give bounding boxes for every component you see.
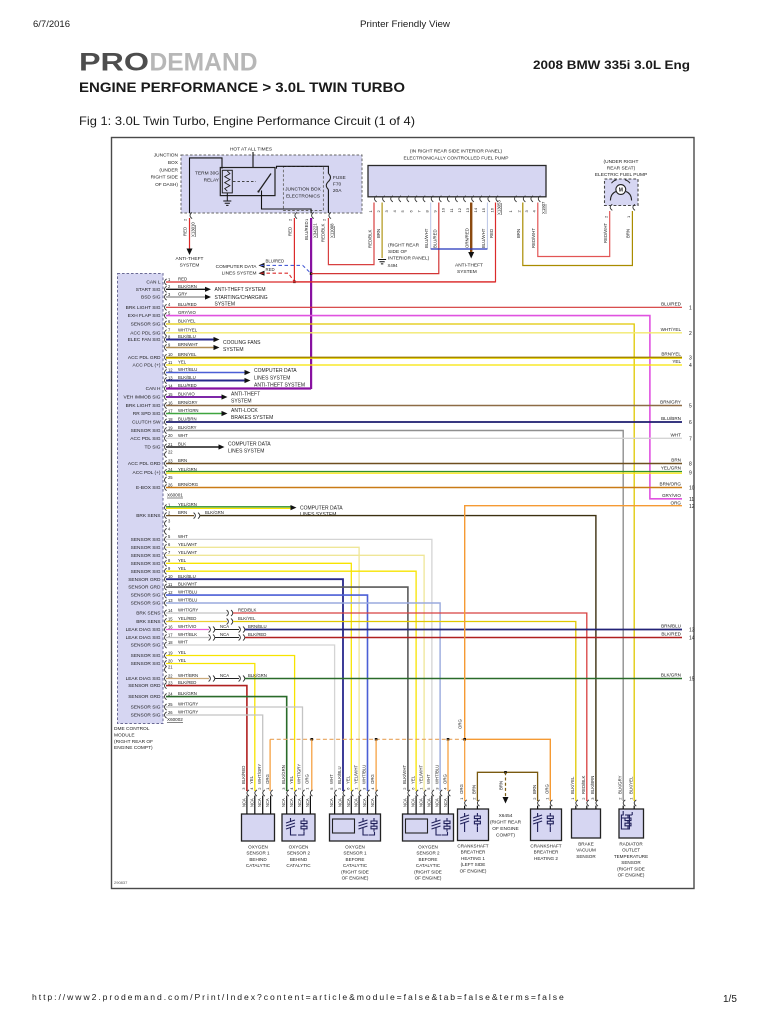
svg-text:BRK LIGHT SIG: BRK LIGHT SIG (126, 305, 161, 311)
svg-text:12: 12 (168, 590, 173, 595)
wire WHT/BLU to oxygen sensor 2 before cat (166, 603, 440, 791)
svg-text:SENSOR: SENSOR (621, 860, 641, 865)
wire BRN module pin2 to ground X494 (381, 203, 383, 259)
edge label BRN 8 (671, 458, 692, 468)
svg-text:SENSOR SIG: SENSOR SIG (131, 553, 161, 559)
oxygen sensor 1 before catalytic box (330, 814, 381, 841)
svg-text:ACC PDL SIG: ACC PDL SIG (130, 330, 160, 336)
svg-text:BLU/RED: BLU/RED (661, 302, 682, 307)
svg-text:ANTI-THEFT: ANTI-THEFT (176, 256, 204, 262)
svg-text:SENSOR 2: SENSOR 2 (416, 851, 440, 856)
electric fuel pump box (605, 179, 639, 206)
wire BLK/GRN to oxygen sensor 2 behind cat (166, 697, 287, 791)
brake vacuum sensor box (572, 809, 601, 838)
svg-text:BRN: BRN (472, 785, 477, 794)
svg-text:ELEC FAN SIG: ELEC FAN SIG (128, 337, 161, 343)
svg-text:3: 3 (689, 355, 692, 361)
X60001 pin 26 BRN/ORG (136, 482, 199, 491)
svg-text:BRN: BRN (671, 458, 681, 463)
wire WHT/GRY to oxygen sensor 1 behind cat (166, 715, 263, 791)
svg-text:ORG: ORG (443, 774, 448, 784)
svg-text:RED: RED (178, 277, 187, 282)
svg-text:CATALYTIC: CATALYTIC (416, 863, 441, 868)
svg-text:X13053: X13053 (497, 200, 502, 215)
svg-text:2: 2 (689, 331, 692, 337)
svg-text:CAN L: CAN L (146, 280, 160, 286)
svg-text:BRN/GRY: BRN/GRY (178, 400, 198, 405)
svg-text:HEATING 2: HEATING 2 (534, 856, 558, 861)
svg-text:BREATHER: BREATHER (534, 850, 559, 855)
svg-text:26: 26 (168, 710, 173, 715)
X60001 pin 3 GRY (141, 292, 187, 301)
svg-text:BLK/GRN: BLK/GRN (205, 510, 224, 515)
svg-text:BRAKES SYSTEM: BRAKES SYSTEM (231, 415, 273, 421)
svg-text:15: 15 (168, 616, 173, 621)
svg-text:NCA: NCA (362, 798, 367, 807)
svg-text:SENSOR GRD: SENSOR GRD (128, 683, 161, 689)
label COMPUTER DATA LINES SYSTEM (top) (216, 264, 258, 277)
svg-text:13: 13 (689, 628, 695, 634)
svg-text:WHT/GRY: WHT/GRY (178, 608, 198, 613)
svg-text:ORN/RED: ORN/RED (465, 228, 470, 248)
wire BLK/YEL to radiator outlet sensor (166, 324, 634, 801)
svg-text:YEL/GRN: YEL/GRN (661, 466, 681, 471)
svg-text:BLU/RED: BLU/RED (266, 259, 285, 264)
svg-text:LINES SYSTEM: LINES SYSTEM (222, 270, 257, 276)
edge label BLK/RED 14 (661, 632, 694, 642)
svg-text:WHT/GRY: WHT/GRY (297, 764, 302, 784)
svg-text:TD SIG: TD SIG (145, 445, 161, 451)
svg-text:BRN/GRY: BRN/GRY (660, 400, 681, 405)
svg-text:17: 17 (168, 632, 173, 637)
svg-text:X60002: X60002 (167, 717, 183, 722)
wire fuse bottom to pin (327, 190, 329, 214)
wire CAN L RED bus (166, 281, 496, 283)
ground X494 (378, 260, 386, 264)
node X6454 label (490, 813, 522, 839)
fuel pump pin 1 (626, 204, 635, 218)
wire YEL to oxygen sensor 1 behind cat (166, 664, 255, 792)
svg-text:SENSOR 1: SENSOR 1 (246, 851, 270, 856)
svg-text:RED/BLK: RED/BLK (368, 229, 373, 248)
svg-text:NCA: NCA (426, 798, 431, 807)
svg-text:BLK/GRN: BLK/GRN (661, 673, 681, 678)
svg-text:NCA: NCA (435, 798, 440, 807)
wire VIO X34221 vertical (310, 218, 312, 389)
label BLU/RED X34221 (304, 221, 318, 240)
svg-text:ORG: ORG (370, 774, 375, 784)
svg-text:BLK/GRN: BLK/GRN (281, 765, 286, 784)
svg-text:GRY/VIO: GRY/VIO (662, 493, 681, 498)
fuel pump control module box (368, 166, 546, 197)
svg-text:X34221: X34221 (313, 223, 318, 238)
wire BLU/BRN to right edge 6 (166, 421, 682, 423)
svg-text:OXYGEN: OXYGEN (289, 845, 309, 850)
svg-text:5: 5 (689, 404, 692, 410)
svg-text:LEAK DIAG SIG: LEAK DIAG SIG (126, 635, 161, 641)
edge label ORG 12 (671, 500, 695, 510)
svg-text:NCA: NCA (220, 673, 229, 678)
crankshaft breather heating 1 heater symbols (460, 813, 480, 832)
svg-text:X13010: X13010 (191, 222, 196, 237)
svg-text:PRO: PRO (79, 49, 149, 77)
edge label WHT/YEL 2 (661, 327, 692, 337)
svg-text:(UNDER: (UNDER (159, 167, 178, 173)
svg-text:24: 24 (168, 691, 173, 696)
svg-text:14: 14 (168, 608, 173, 613)
svg-text:GRY: GRY (178, 292, 187, 297)
svg-text:FUSE: FUSE (333, 175, 346, 181)
X60001 pin 18 BLU/BRN (132, 417, 197, 426)
svg-text:BLK/GRN: BLK/GRN (248, 673, 267, 678)
svg-text:WHT/BLU: WHT/BLU (178, 367, 197, 372)
relay TERM 30G box (220, 168, 275, 196)
svg-text:YEL: YEL (346, 775, 351, 784)
svg-text:SYSTEM: SYSTEM (231, 398, 252, 404)
svg-text:WHT: WHT (178, 534, 188, 539)
svg-text:YEL: YEL (672, 359, 681, 364)
X60001 pin 13 BLK/BLU (165, 375, 196, 384)
wire WHT/BLK-NCA-BLK/RED to right edge 14 (166, 635, 682, 641)
crankshaft breather heating 2 label (530, 844, 561, 861)
svg-text:F70: F70 (333, 182, 342, 188)
wire WHT/GRY to oxygen sensor 2 behind cat (166, 707, 303, 791)
X60002 pin 22 WHT/BRN (126, 673, 199, 682)
label ANTI-THEFT SYSTEM (below module) (455, 263, 483, 276)
svg-text:BEHIND: BEHIND (290, 857, 308, 862)
svg-text:WHT/VIO: WHT/VIO (178, 624, 197, 629)
svg-text:10: 10 (168, 574, 173, 579)
svg-text:BLK/GRY: BLK/GRY (178, 425, 197, 430)
svg-text:BLK/RED: BLK/RED (248, 632, 266, 637)
svg-text:VEH IMMOB SIG: VEH IMMOB SIG (123, 395, 160, 401)
svg-text:SENSOR SIG: SENSOR SIG (131, 537, 161, 543)
svg-text:SENSOR SIG: SENSOR SIG (131, 545, 161, 551)
oxygen sensor 2 behind catalytic box (282, 814, 315, 841)
svg-text:Printer Friendly View: Printer Friendly View (360, 19, 450, 29)
svg-text:STARTING/CHARGING: STARTING/CHARGING (215, 295, 268, 301)
svg-text:ORG: ORG (459, 784, 464, 794)
svg-text:25: 25 (168, 475, 173, 480)
svg-text:NCA: NCA (220, 632, 229, 637)
wire BLK/RED to oxygen sensor 1 behind cat (166, 686, 247, 791)
svg-text:YEL/RED: YEL/RED (178, 616, 196, 621)
wire WHT to oxygen sensor 2 before cat (166, 539, 432, 791)
wire WHT/VIO-NCA-BRN/BLU to right edge 13 (166, 627, 682, 633)
wire RED X13010 to anti-theft (187, 218, 193, 255)
svg-text:SENSOR SIG: SENSOR SIG (131, 322, 161, 328)
svg-text:CRANKSHAFT: CRANKSHAFT (457, 844, 488, 849)
svg-text:WHT/GRY: WHT/GRY (257, 764, 262, 784)
oxygen sensor 2 behind catalytic pins (281, 764, 313, 814)
wire WHT/YEL to right edge 2 (166, 332, 682, 334)
svg-text:(RIGHT SIDE: (RIGHT SIDE (414, 869, 442, 874)
svg-text:BLK/WHT: BLK/WHT (178, 582, 197, 587)
svg-text:X1907: X1907 (541, 201, 546, 214)
svg-text:JUNCTION: JUNCTION (154, 153, 179, 159)
svg-text:TERM 30G: TERM 30G (195, 171, 219, 177)
svg-text:BLK/RED: BLK/RED (241, 766, 246, 784)
edge label BRN/YEL 3 (661, 352, 692, 362)
wire BRN/BLK-GRN to brake vacuum sensor pin3 (166, 513, 596, 801)
svg-text:WHT/BLU: WHT/BLU (362, 765, 367, 784)
X60002 pin 3 (165, 518, 172, 526)
svg-text:1: 1 (689, 305, 692, 311)
svg-text:REAR SEAT): REAR SEAT) (607, 166, 636, 172)
svg-text:JUNCTION BOX: JUNCTION BOX (285, 187, 322, 193)
svg-text:NCA: NCA (297, 798, 302, 807)
relay coil (222, 170, 232, 193)
svg-text:NCA: NCA (338, 798, 343, 807)
svg-text:SENSOR GRD: SENSOR GRD (128, 577, 161, 583)
svg-text:7: 7 (689, 436, 692, 442)
wire BLU/RED to right edge 1 (166, 306, 682, 308)
X60002 pin 9 YEL (131, 566, 187, 575)
wire BLU/WHT pin8 drop (430, 203, 432, 250)
wire WHT/BLU to computer data (166, 370, 251, 375)
fuel pump module connector X1907 pins 1-4 (508, 196, 541, 213)
X60001 pin 24 YEL/GRN (133, 467, 197, 476)
svg-text:NCA: NCA (329, 798, 334, 807)
svg-text:CRANKSHAFT: CRANKSHAFT (530, 844, 561, 849)
brake vacuum sensor label (576, 842, 596, 859)
dashed wire RED computer data (259, 271, 295, 282)
svg-text:INTERIOR PANEL): INTERIOR PANEL) (388, 256, 430, 262)
wire BLK/GRY to radiator outlet sensor (166, 431, 623, 802)
X60001 pin 8 BLK/BLU (128, 334, 196, 343)
fuel pump module location label (404, 149, 509, 162)
svg-text:4: 4 (689, 363, 692, 369)
svg-text:OF ENGINE: OF ENGINE (492, 826, 518, 832)
X60002 pin 13 WHT/BLU (131, 598, 198, 607)
junction box pin 2 (RED) (288, 212, 298, 221)
svg-text:NCA: NCA (370, 798, 375, 807)
radiator outlet temperature sensor box (619, 809, 644, 838)
X60002 pin 26 WHT/GRY (131, 710, 199, 719)
svg-text:WHT/BLU: WHT/BLU (434, 765, 439, 784)
svg-text:WHT/BLU: WHT/BLU (178, 598, 197, 603)
svg-text:BRN/BLU: BRN/BLU (661, 624, 681, 629)
X60001 pin 20 WHT (130, 433, 188, 442)
svg-text:WHT: WHT (671, 433, 682, 438)
svg-text:BLK/YEL: BLK/YEL (178, 319, 196, 324)
node junction RED / CAN-L row (293, 281, 296, 284)
X60001 pin 14 BLU/RED (146, 383, 197, 392)
X60001 pin 7 WHT/YEL (130, 327, 197, 336)
svg-text:BRN: BRN (626, 229, 631, 238)
svg-text:BRN/ORG: BRN/ORG (660, 482, 682, 487)
svg-text:HEATING 1: HEATING 1 (461, 856, 485, 861)
wire ORG bus to right edge 12 (465, 506, 682, 740)
svg-text:ACC PDL GRD: ACC PDL GRD (128, 461, 161, 467)
edge label YEL/GRN 9 (661, 466, 692, 477)
wire junction-box left pin feed (190, 158, 223, 213)
X60001 pin 6 BLK/YEL (131, 319, 196, 328)
svg-text:SENSOR SIG: SENSOR SIG (131, 601, 161, 607)
svg-text:ANTI-THEFT SYSTEM: ANTI-THEFT SYSTEM (215, 287, 266, 293)
wire YEL to right edge 4 (166, 364, 682, 366)
wire ORG bus solid to crankshaft heater 2 (465, 739, 551, 801)
svg-text:COMPUTER DATA: COMPUTER DATA (254, 368, 297, 374)
X60002 pin 23 BLK/RED (128, 680, 196, 689)
svg-text:RADIATOR: RADIATOR (619, 842, 643, 847)
wire BLU jumper pins 8-15 (431, 248, 488, 250)
ground (junction box internal) (223, 201, 231, 205)
svg-text:NCA: NCA (220, 624, 229, 629)
radiator outlet temperature sensor symbol (621, 811, 632, 829)
wire YEL to oxygen sensor 1 before cat (166, 563, 351, 791)
svg-text:X6454: X6454 (499, 813, 513, 819)
svg-text:WHT/BLK: WHT/BLK (178, 632, 197, 637)
label STARTING/CHARGING SYSTEM (215, 295, 268, 308)
svg-text:BRN: BRN (376, 229, 381, 238)
svg-text:ELECTRIC FUEL PUMP: ELECTRIC FUEL PUMP (595, 172, 647, 178)
svg-text:BSD SIG: BSD SIG (141, 295, 161, 301)
wire ORG drop oxygen sensor 1 behind cat (269, 739, 271, 791)
svg-text:RED: RED (288, 227, 293, 236)
svg-text:6/7/2016: 6/7/2016 (33, 19, 70, 29)
DME control module box (118, 274, 164, 724)
svg-text:BRN/YEL: BRN/YEL (178, 352, 197, 357)
svg-text:ANTI-THEFT: ANTI-THEFT (231, 392, 260, 398)
wire RED/BLK X11008 to module pin 1 (328, 203, 374, 265)
svg-text:OF ENGINE): OF ENGINE) (618, 873, 645, 878)
svg-text:RR SPD SIG: RR SPD SIG (133, 411, 161, 417)
svg-text:BLK/VIO: BLK/VIO (178, 392, 195, 397)
node ORG bus / oxy4 (447, 738, 450, 741)
svg-text:RED/WHT: RED/WHT (603, 223, 608, 243)
svg-text:BLU/RED: BLU/RED (178, 302, 197, 307)
svg-text:RIGHT SIDE: RIGHT SIDE (151, 175, 178, 181)
junction box pin 2 (left) (183, 212, 193, 221)
svg-text:ACC PDL (+): ACC PDL (+) (133, 363, 161, 369)
X60002 pin 7 YEL/WHT (131, 550, 198, 559)
svg-text:TEMPERATURE: TEMPERATURE (614, 854, 648, 859)
svg-text:BLK/YEL: BLK/YEL (570, 776, 575, 794)
svg-text:20: 20 (168, 433, 173, 438)
svg-text:BLK/BLU: BLK/BLU (178, 334, 196, 339)
X60002 pin 18 WHT (131, 640, 189, 649)
svg-text:X60001: X60001 (167, 493, 183, 498)
wire BRN/WHT to cooling fans (166, 345, 220, 350)
svg-text:NCA: NCA (419, 798, 424, 807)
X60001 pin 12 WHT/BLU (165, 367, 198, 376)
svg-text:RED/BLK: RED/BLK (321, 223, 326, 242)
wire BRN/GRY to right edge 5 (166, 405, 682, 407)
wire YEL/GRN to right edge 9 (166, 472, 682, 474)
wire BLU/RED CAN H to junction box (166, 387, 311, 389)
edge label YEL 4 (672, 359, 692, 369)
svg-text:OXYGEN: OXYGEN (248, 845, 268, 850)
svg-text:BLK: BLK (178, 442, 186, 447)
label ANTI-THEFT SYSTEM (row15) (231, 392, 260, 405)
wire BLK/GRN to anti-theft (166, 287, 211, 292)
svg-text:BLK/BLU: BLK/BLU (178, 574, 196, 579)
edge label WHT 7 (671, 433, 692, 443)
svg-text:(IN RIGHT REAR SIDE INTERIOR P: (IN RIGHT REAR SIDE INTERIOR PANEL) (410, 149, 503, 155)
svg-text:12: 12 (689, 504, 695, 510)
svg-text:EXH FLAP SIG: EXH FLAP SIG (128, 313, 161, 319)
svg-text:YEL: YEL (178, 650, 187, 655)
svg-text:SYSTEM: SYSTEM (457, 269, 477, 275)
wire RED module pin16 to CAN-L row (294, 203, 495, 282)
wire BRN to right edge 8 (166, 463, 682, 465)
svg-text:RED: RED (266, 267, 275, 272)
svg-text:SENSOR SIG: SENSOR SIG (131, 428, 161, 434)
X60001 pin 4 BLU/RED (126, 302, 197, 311)
svg-text:COMPUTER DATA: COMPUTER DATA (300, 505, 343, 511)
junction box pin 2 (RED/BLK X11008) (321, 212, 331, 221)
node ORG bus / main (463, 738, 466, 741)
X60001 pin 21 BLK (145, 442, 187, 451)
svg-text:OXYGEN: OXYGEN (345, 845, 365, 850)
wire BRN/YEL to right edge 3 (166, 356, 682, 358)
X60002 pin 15 YEL/RED (136, 616, 196, 625)
svg-text:BLU/RED: BLU/RED (178, 383, 197, 388)
wire ORG dashed bus (270, 738, 465, 740)
svg-text:BRN/WHT: BRN/WHT (178, 342, 198, 347)
svg-text:19: 19 (168, 650, 173, 655)
dashed wire BLU/RED computer data (259, 263, 312, 274)
svg-text:14: 14 (473, 207, 478, 212)
svg-text:YEL: YEL (178, 658, 187, 663)
svg-text:ORG: ORG (545, 784, 550, 794)
oxygen sensor 1 before catalytic pins (329, 765, 378, 814)
wire WHT/GRY-RED/BLK to brake vacuum sensor pin2 (166, 610, 587, 801)
svg-text:BRK LIGHT SIG: BRK LIGHT SIG (126, 403, 161, 409)
svg-text:WHT: WHT (178, 640, 188, 645)
svg-text:2008 BMW 335i 3.0L Eng: 2008 BMW 335i 3.0L Eng (533, 58, 690, 72)
wire YEL to oxygen sensor 2 before cat (166, 571, 416, 791)
fuel pump motor symbol (610, 180, 631, 201)
oxygen sensor 2 before catalytic box (403, 814, 454, 841)
svg-text:SENSOR SIG: SENSOR SIG (131, 661, 161, 667)
svg-text:BLU/WHT: BLU/WHT (424, 228, 429, 248)
junction box electronics inner box (283, 167, 323, 211)
label ANTI-THEFT SYSTEM (top left) (176, 256, 204, 269)
svg-text:LINES SYSTEM: LINES SYSTEM (228, 448, 264, 454)
svg-text:9: 9 (689, 470, 692, 476)
svg-text:OF ENGINE): OF ENGINE) (342, 876, 369, 881)
svg-text:COMPUTER DATA: COMPUTER DATA (216, 264, 258, 270)
PRODEMAND logo (79, 49, 258, 77)
svg-text:BLK/GRN: BLK/GRN (178, 284, 197, 289)
wire YEL/GRN to computer data (X60002) (166, 505, 297, 510)
svg-text:YEL: YEL (289, 775, 294, 784)
label ANTI-LOCK BRAKES SYSTEM (231, 408, 273, 421)
svg-text:SENSOR: SENSOR (576, 854, 596, 859)
X60002 pin 11 BLK/WHT (128, 582, 197, 591)
crankshaft breather heating 1 box (458, 809, 489, 841)
svg-text:OF ENGINE): OF ENGINE) (415, 876, 442, 881)
wire GRY/VIO to right edge 11 (166, 316, 682, 499)
X60002 pin 16 WHT/VIO (126, 624, 197, 633)
X60002 pin 4 (165, 526, 172, 534)
oxygen sensor 1 behind catalytic box (242, 814, 275, 841)
svg-text:SENSOR SIG: SENSOR SIG (131, 561, 161, 567)
wire ORG drop oxygen sensor 1 before cat (375, 739, 377, 791)
svg-text:WHT/YEL: WHT/YEL (178, 327, 198, 332)
label COOLING FANS SYSTEM (223, 340, 261, 353)
svg-text:GRY/VIO: GRY/VIO (178, 310, 196, 315)
svg-text:RED/BLK: RED/BLK (238, 608, 257, 613)
svg-text:BLK/BLU: BLK/BLU (337, 766, 342, 784)
wire ORG drop oxygen sensor 2 behind cat (311, 739, 313, 791)
svg-text:LEAK DIAG SIG: LEAK DIAG SIG (126, 676, 161, 682)
svg-text:CATALYTIC: CATALYTIC (343, 863, 368, 868)
svg-text:BLK/YEL: BLK/YEL (628, 776, 633, 794)
wire BRN dashed drop to X6454 (503, 772, 509, 803)
